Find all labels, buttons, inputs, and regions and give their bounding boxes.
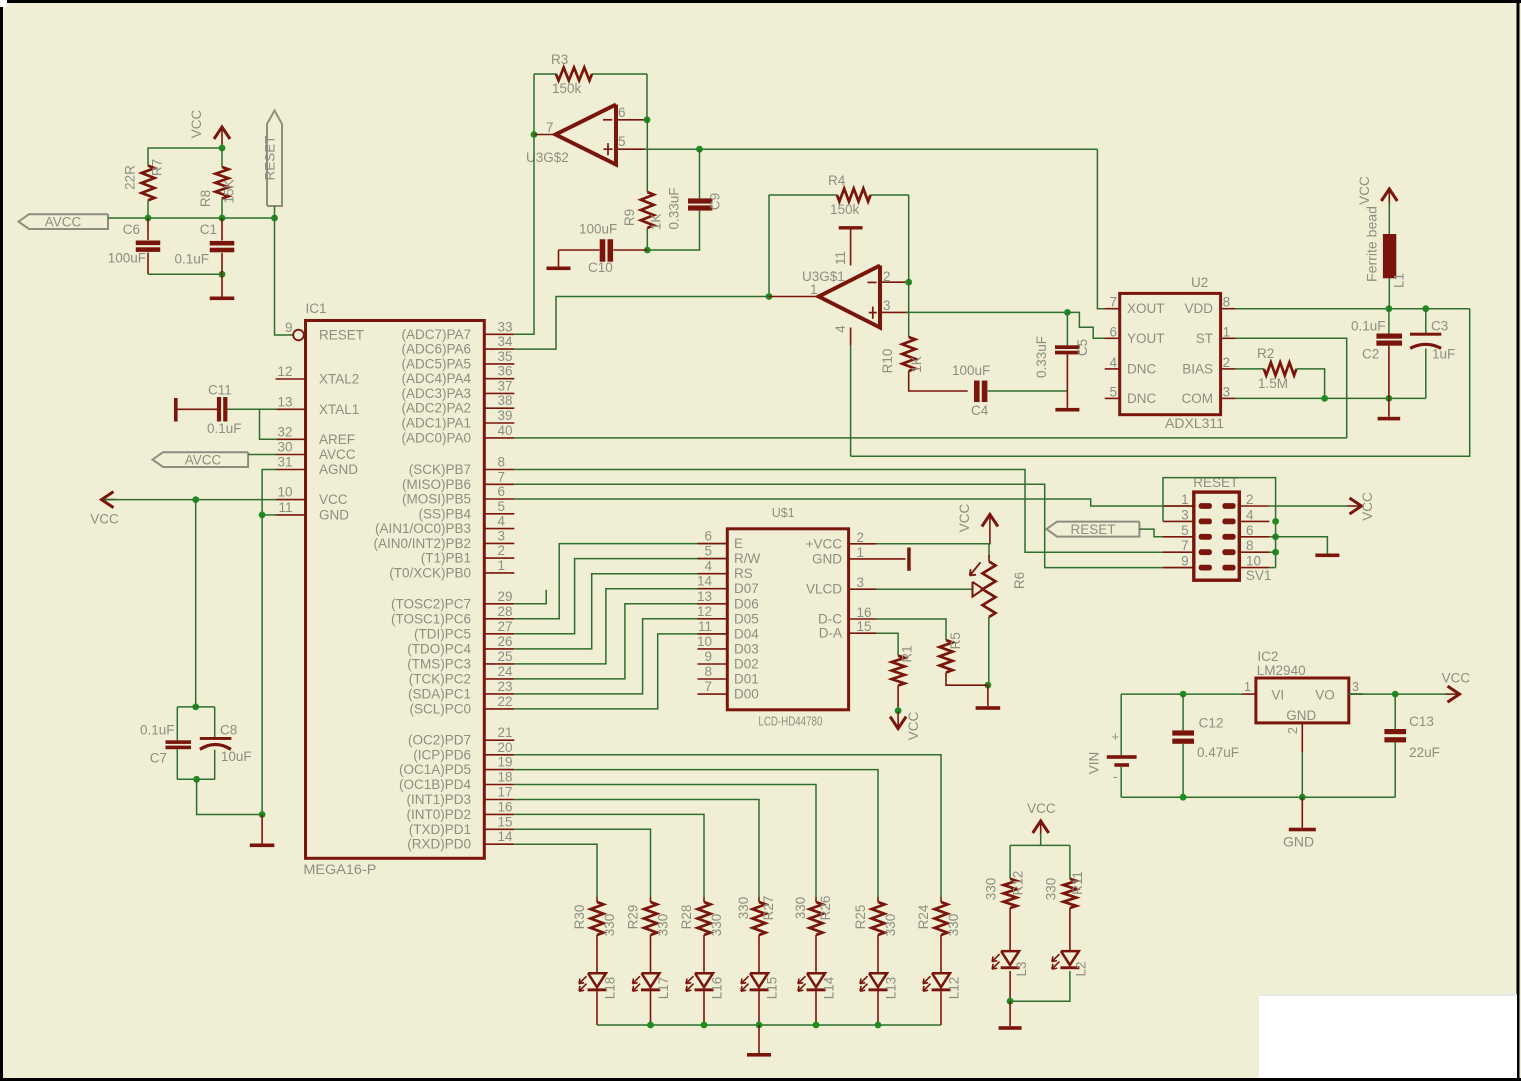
- svg-text:D07: D07: [734, 581, 759, 596]
- svg-text:YOUT: YOUT: [1127, 331, 1165, 346]
- svg-text:22: 22: [498, 694, 513, 709]
- svg-text:GND: GND: [812, 551, 842, 566]
- svg-text:35: 35: [498, 349, 513, 364]
- svg-text:6: 6: [498, 484, 506, 499]
- wire L12 to bus: [940, 991, 942, 1025]
- svg-text:R26: R26: [818, 896, 833, 921]
- wire R1 bottom: [897, 686, 899, 711]
- svg-text:(ICP)PD6: (ICP)PD6: [413, 747, 471, 762]
- svg-text:5: 5: [618, 134, 626, 149]
- wire C6 bottom: [147, 253, 149, 275]
- power flag VCC (above R12/R11): [1027, 801, 1056, 835]
- ground below C1: [221, 274, 223, 296]
- node SV1 pin6: [1272, 533, 1279, 540]
- svg-text:VCC: VCC: [1360, 492, 1375, 521]
- wire SV1 pin3-pin4 loop: [1163, 478, 1276, 522]
- ground (IC1 decoupling): [261, 815, 263, 844]
- wire C6-C1 gnd link: [148, 273, 222, 275]
- svg-text:25: 25: [498, 649, 513, 664]
- svg-text:XTAL1: XTAL1: [319, 402, 359, 417]
- wire C3 bottom: [1425, 349, 1427, 399]
- resistor R29: [626, 897, 671, 936]
- svg-text:34: 34: [498, 334, 514, 349]
- wire C10 right: [613, 249, 647, 251]
- svg-text:6: 6: [618, 105, 626, 120]
- svg-text:16: 16: [498, 799, 513, 814]
- IC2 pin stubs: [1242, 680, 1363, 752]
- svg-text:L18: L18: [603, 977, 618, 1000]
- svg-text:5: 5: [1109, 384, 1117, 399]
- svg-text:AREF: AREF: [319, 432, 355, 447]
- capacitor C12: [1172, 694, 1239, 797]
- svg-text:(RXD)PD0: (RXD)PD0: [407, 837, 471, 852]
- svg-text:1: 1: [857, 545, 865, 560]
- wire VCC down to C7/C8: [195, 500, 197, 707]
- wire C10 left: [559, 249, 600, 251]
- potentiometer R6: [970, 555, 1027, 617]
- wire C5 bottom: [1066, 354, 1068, 391]
- svg-text:21: 21: [498, 725, 513, 740]
- svg-text:5: 5: [1181, 523, 1189, 538]
- wire GND net down: [261, 515, 263, 815]
- svg-text:(SS)PB4: (SS)PB4: [418, 506, 471, 521]
- wire VCC to pin 10: [104, 499, 277, 501]
- resistor R1: [892, 645, 915, 685]
- svg-text:38: 38: [498, 393, 513, 408]
- inductor L1 ferrite bead: [1365, 206, 1407, 288]
- svg-text:13: 13: [277, 394, 292, 409]
- node VIN-C12: [1180, 691, 1187, 698]
- svg-text:150k: 150k: [830, 202, 860, 217]
- svg-text:11: 11: [698, 619, 712, 634]
- SV1 pads: [1199, 503, 1236, 570]
- LCD left pin stubs and names: [697, 529, 761, 702]
- node GND net: [259, 811, 266, 818]
- wire R29 to L17: [650, 935, 652, 973]
- svg-text:14: 14: [498, 829, 514, 844]
- svg-text:ADXL311: ADXL311: [1165, 416, 1224, 431]
- svg-text:3: 3: [857, 575, 865, 590]
- svg-text:15K: 15K: [222, 179, 237, 203]
- IC U$1 LCD-HD44780 box: [727, 506, 848, 729]
- resistor R24: [916, 897, 961, 936]
- svg-text:C1: C1: [200, 222, 217, 237]
- wire L3 to gnd node: [1009, 971, 1011, 1001]
- svg-text:C13: C13: [1409, 714, 1434, 729]
- node RESET-R8-C1: [219, 215, 226, 222]
- svg-text:330: 330: [736, 897, 751, 920]
- wire R5 bottom: [946, 673, 988, 686]
- node VCC-R7-R8: [219, 145, 226, 152]
- svg-text:(ADC4)PA4: (ADC4)PA4: [401, 371, 471, 386]
- IC1 left pin stubs and names: [276, 320, 365, 522]
- svg-text:AVCC: AVCC: [185, 453, 222, 468]
- resistor R9: [622, 192, 664, 230]
- wire PD to R24: [514, 755, 941, 897]
- wire VCC rail: [148, 147, 223, 149]
- wire RESET flag to rail: [274, 206, 276, 218]
- LED L14: [798, 973, 837, 999]
- svg-text:L12: L12: [947, 977, 962, 1000]
- resistor R7: [123, 159, 165, 201]
- svg-text:VIN: VIN: [1087, 752, 1102, 775]
- wire VCC bus R12/R11: [1010, 844, 1070, 846]
- net flag AVCC (top-left): [19, 214, 109, 229]
- svg-text:12: 12: [697, 604, 712, 619]
- svg-text:150k: 150k: [552, 81, 582, 96]
- svg-text:3: 3: [1223, 384, 1231, 399]
- wire VDD net: [1236, 308, 1470, 310]
- wire L2 to gnd node: [1010, 971, 1070, 1001]
- wire PD to R29: [514, 829, 650, 897]
- svg-text:330: 330: [656, 914, 671, 937]
- node SV1 pin8: [1272, 549, 1279, 556]
- node LED bus junction: [875, 1022, 882, 1029]
- wire AGND to GND net: [262, 470, 277, 515]
- LED L2: [1052, 951, 1089, 976]
- node COM-C2-gnd: [1386, 395, 1393, 402]
- wire C11 branch to AREF: [260, 409, 278, 439]
- svg-text:24: 24: [498, 664, 514, 679]
- wire LED ground bus: [597, 1024, 941, 1026]
- wire GND pin 11: [262, 514, 277, 516]
- svg-text:22uF: 22uF: [1409, 745, 1440, 760]
- power flag VCC (above L1): [1357, 176, 1397, 205]
- svg-text:3: 3: [498, 528, 506, 543]
- svg-text:8: 8: [704, 664, 712, 679]
- capacitor C10: [579, 222, 617, 276]
- svg-text:6: 6: [1246, 523, 1254, 538]
- resistor R2: [1236, 346, 1297, 391]
- wire PC4 to LCD RS: [514, 574, 727, 649]
- wire R8 bottom: [221, 199, 223, 219]
- net flag RESET (vertical, top-left): [263, 111, 283, 207]
- svg-text:(TMS)PC3: (TMS)PC3: [407, 656, 471, 671]
- svg-text:22R: 22R: [123, 165, 138, 190]
- svg-text:30: 30: [277, 440, 292, 455]
- svg-text:17: 17: [498, 785, 513, 800]
- svg-text:VO: VO: [1315, 688, 1335, 703]
- resistor R10: [880, 337, 924, 373]
- svg-text:1: 1: [1223, 324, 1231, 339]
- wire PC0 to LCD D04: [514, 634, 727, 709]
- wire VO to VCC: [1348, 693, 1363, 695]
- capacitor C2: [1351, 309, 1402, 362]
- svg-text:0.1uF: 0.1uF: [1351, 319, 1386, 334]
- wire LCD +VCC: [877, 543, 989, 545]
- svg-text:100uF: 100uF: [579, 222, 617, 237]
- node pin5-C9: [696, 146, 703, 153]
- svg-text:(ADC5)PA5: (ADC5)PA5: [401, 356, 471, 371]
- svg-text:C4: C4: [971, 403, 989, 418]
- svg-text:7: 7: [546, 120, 554, 135]
- svg-text:4: 4: [1109, 355, 1117, 370]
- wire RESET flag to SV1 pin5: [1139, 529, 1163, 537]
- wire PC6 to LCD E: [514, 544, 727, 619]
- node AVCC-C6: [145, 215, 152, 222]
- svg-text:(OC1A)PD5: (OC1A)PD5: [399, 762, 471, 777]
- svg-text:R30: R30: [572, 905, 587, 930]
- svg-text:(TCK)PC2: (TCK)PC2: [409, 671, 471, 686]
- svg-text:28: 28: [498, 604, 513, 619]
- svg-text:36: 36: [498, 364, 513, 379]
- svg-text:(ADC6)PA6: (ADC6)PA6: [401, 342, 471, 357]
- svg-text:37: 37: [498, 378, 513, 393]
- svg-text:+VCC: +VCC: [806, 536, 843, 551]
- svg-text:1: 1: [1181, 492, 1189, 507]
- wire R4 left vertical: [768, 195, 770, 297]
- svg-text:R29: R29: [626, 905, 641, 930]
- wire RESET to IC1 pin 9: [275, 218, 293, 335]
- svg-text:U3G$2: U3G$2: [526, 150, 569, 165]
- resistor R8: [198, 148, 237, 207]
- wire D-C to R5: [877, 619, 946, 640]
- svg-text:C12: C12: [1199, 716, 1224, 731]
- power flag VCC (right of SV1): [1348, 492, 1376, 521]
- svg-text:10: 10: [1246, 554, 1261, 569]
- svg-text:(INT1)PD3: (INT1)PD3: [406, 792, 471, 807]
- net flag RESET (at SV1): [1046, 522, 1139, 538]
- resistor R26: [793, 896, 833, 935]
- capacitor C8 (polarized): [200, 707, 252, 779]
- svg-text:2: 2: [498, 543, 506, 558]
- wire pin6 feedback: [616, 119, 647, 121]
- node R9-C10-C9: [644, 247, 651, 254]
- svg-text:11: 11: [278, 500, 292, 515]
- svg-text:ST: ST: [1196, 331, 1213, 346]
- svg-text:330: 330: [709, 914, 724, 937]
- wire C1 bottom: [221, 253, 223, 274]
- wire C7/C8 bottom bus: [177, 778, 214, 780]
- wire R3 left to output: [533, 74, 535, 135]
- svg-text:6: 6: [704, 529, 712, 544]
- LED L12: [923, 973, 962, 999]
- svg-text:330: 330: [883, 914, 898, 937]
- svg-text:(ADC0)PA0: (ADC0)PA0: [401, 430, 471, 445]
- svg-text:330: 330: [984, 878, 999, 901]
- wire VLCD to R6 wiper: [877, 588, 972, 590]
- svg-text:C8: C8: [220, 723, 237, 738]
- wire PC1 to LCD D05: [514, 619, 727, 694]
- power flag VCC (top-left): [189, 110, 230, 148]
- wire MISO to SV1 pin9: [514, 484, 1194, 567]
- svg-text:2: 2: [1286, 727, 1300, 734]
- svg-text:0.1uF: 0.1uF: [174, 252, 209, 267]
- capacitor C13: [1384, 694, 1439, 797]
- node LED bus junction: [647, 1022, 654, 1029]
- svg-text:XOUT: XOUT: [1127, 301, 1165, 316]
- svg-text:26: 26: [498, 634, 513, 649]
- capacitor C4: [952, 363, 990, 418]
- svg-text:R5: R5: [948, 632, 963, 649]
- svg-text:R8: R8: [198, 190, 213, 207]
- battery VIN: [1087, 694, 1137, 797]
- svg-text:20: 20: [498, 740, 513, 755]
- svg-text:1: 1: [498, 558, 506, 573]
- IC1 right pin stubs and names: [373, 319, 514, 851]
- LED L15: [741, 973, 780, 999]
- svg-text:6: 6: [1109, 324, 1117, 339]
- wire R26 to L14: [815, 935, 817, 973]
- svg-text:(SCL)PC0: (SCL)PC0: [409, 701, 471, 716]
- svg-text:(AIN1/OC0)PB3: (AIN1/OC0)PB3: [375, 521, 471, 536]
- svg-text:9: 9: [285, 320, 293, 335]
- ground below L3: [1009, 1001, 1011, 1026]
- svg-text:R10: R10: [880, 349, 895, 374]
- svg-text:7: 7: [1109, 295, 1117, 310]
- wire SV1 pin2 to VCC: [1269, 505, 1348, 507]
- svg-text:RESET: RESET: [263, 135, 278, 180]
- power flag VCC (regulator output): [1442, 671, 1471, 703]
- LED L18: [579, 973, 618, 999]
- svg-text:1K: 1K: [909, 356, 924, 373]
- svg-text:RS: RS: [734, 566, 753, 581]
- wire PC2 to LCD D06: [514, 604, 727, 679]
- resistor R4: [769, 173, 909, 217]
- IC IC1 MEGA16-P box: [303, 301, 484, 877]
- svg-text:C2: C2: [1362, 347, 1379, 362]
- wire L13 to bus: [877, 991, 879, 1025]
- node C7C8 top: [192, 704, 199, 711]
- svg-text:40: 40: [498, 423, 513, 438]
- svg-text:L17: L17: [656, 977, 671, 1000]
- wire L18 to bus: [596, 991, 598, 1025]
- wire U3G$1 pin 4 down: [833, 325, 851, 456]
- svg-text:+: +: [1112, 729, 1120, 744]
- LCD right pin stubs and names: [806, 530, 877, 641]
- svg-text:R11: R11: [1070, 871, 1085, 895]
- svg-text:R6: R6: [1012, 572, 1027, 589]
- resistor R11: [1044, 871, 1086, 908]
- wire PC3 to LCD D07: [514, 589, 727, 664]
- svg-text:DNC: DNC: [1127, 391, 1156, 406]
- capacitor C7: [140, 707, 191, 779]
- resistor R3: [534, 52, 647, 96]
- svg-text:COM: COM: [1182, 391, 1214, 406]
- svg-text:R/W: R/W: [734, 551, 761, 566]
- op-amp U3G$2: [526, 105, 626, 166]
- wire L17 to bus: [650, 991, 652, 1025]
- svg-text:E: E: [734, 536, 743, 551]
- svg-text:32: 32: [277, 424, 292, 439]
- node R4-pin2: [905, 279, 912, 286]
- LED L16: [686, 973, 725, 999]
- svg-text:L13: L13: [884, 977, 899, 1000]
- svg-text:1K: 1K: [649, 214, 664, 231]
- svg-text:10: 10: [697, 634, 712, 649]
- svg-text:330: 330: [793, 897, 808, 920]
- svg-text:0.33uF: 0.33uF: [667, 187, 682, 229]
- wire L14 to bus: [815, 991, 817, 1025]
- node AGND-GND: [259, 512, 266, 519]
- svg-text:L3: L3: [1014, 961, 1029, 976]
- power flag VCC (above LCD pot): [957, 504, 998, 545]
- wire AVCC rail: [108, 217, 275, 219]
- svg-text:RESET: RESET: [319, 328, 364, 343]
- svg-text:C9: C9: [708, 193, 723, 210]
- svg-text:2: 2: [1246, 492, 1254, 507]
- svg-text:1uF: 1uF: [1432, 347, 1455, 362]
- LED L13: [860, 973, 899, 999]
- svg-text:MEGA16-P: MEGA16-P: [303, 862, 376, 877]
- svg-text:(TDO)PC4: (TDO)PC4: [407, 641, 471, 656]
- svg-text:D-A: D-A: [819, 626, 842, 641]
- op-amp U3G$1: [769, 266, 891, 328]
- svg-text:3: 3: [1352, 680, 1359, 694]
- svg-text:SV1: SV1: [1246, 568, 1272, 583]
- svg-text:100uF: 100uF: [108, 251, 146, 266]
- svg-text:12: 12: [277, 364, 292, 379]
- resistor R12: [984, 871, 1026, 908]
- wire L16 to bus: [703, 991, 705, 1025]
- svg-text:16: 16: [857, 605, 872, 620]
- node U3G$1 output: [766, 293, 773, 300]
- svg-text:D-C: D-C: [818, 612, 842, 627]
- svg-text:XTAL2: XTAL2: [319, 372, 359, 387]
- IC IC2 LM2940 box: [1256, 649, 1349, 723]
- svg-text:(MOSI)PB5: (MOSI)PB5: [402, 492, 471, 507]
- svg-text:VCC: VCC: [957, 504, 972, 533]
- svg-text:3: 3: [1181, 507, 1189, 522]
- svg-text:3: 3: [883, 298, 891, 313]
- wire pin6 down to R9: [646, 120, 648, 192]
- wire R2 to COM: [1296, 369, 1324, 399]
- svg-text:4: 4: [498, 514, 506, 529]
- wire PC5 to LCD R/W: [514, 559, 727, 634]
- svg-text:1.5M: 1.5M: [1258, 376, 1288, 391]
- svg-text:VCC: VCC: [1442, 671, 1471, 686]
- svg-text:10: 10: [277, 485, 292, 500]
- wire R12 top: [1009, 845, 1011, 878]
- svg-text:GND: GND: [319, 507, 349, 522]
- svg-text:C5: C5: [1075, 339, 1090, 356]
- wire R11 top: [1069, 845, 1071, 878]
- svg-text:R27: R27: [761, 896, 776, 921]
- svg-text:GND: GND: [1283, 834, 1314, 850]
- ground (LCD pin1, rotated): [877, 548, 911, 571]
- svg-text:11: 11: [833, 251, 848, 265]
- capacitor C3 (polarized): [1410, 309, 1455, 362]
- svg-text:(ADC1)PA1: (ADC1)PA1: [401, 416, 471, 431]
- svg-text:U$1: U$1: [772, 506, 795, 520]
- node C1 gnd: [219, 271, 226, 278]
- svg-text:LM2940: LM2940: [1257, 663, 1306, 678]
- wire COM net: [1236, 397, 1426, 399]
- svg-text:C3: C3: [1431, 319, 1448, 334]
- svg-text:4: 4: [833, 325, 848, 333]
- wire L15 to bus: [758, 991, 760, 1025]
- node R3-pin6: [644, 116, 651, 123]
- svg-text:330: 330: [602, 914, 617, 937]
- svg-text:31: 31: [277, 455, 292, 470]
- wire R28 to L16: [703, 935, 705, 973]
- wire R12 to L3: [1009, 908, 1011, 951]
- svg-text:4: 4: [704, 559, 712, 574]
- node LED bus junction: [701, 1022, 708, 1029]
- wire R7 top: [147, 148, 149, 166]
- node VDD-C2: [1386, 305, 1393, 312]
- svg-text:L14: L14: [822, 976, 837, 999]
- svg-text:R7: R7: [150, 159, 165, 176]
- node pin3-C5-YOUT: [1064, 309, 1071, 316]
- svg-text:10uF: 10uF: [221, 749, 252, 764]
- svg-text:L15: L15: [765, 977, 780, 1000]
- capacitor C6: [108, 218, 161, 266]
- svg-text:(ADC3)PA3: (ADC3)PA3: [401, 386, 471, 401]
- wire PD to R27: [514, 800, 759, 898]
- node VDD-C3: [1422, 305, 1429, 312]
- node R1 VCC: [895, 707, 902, 714]
